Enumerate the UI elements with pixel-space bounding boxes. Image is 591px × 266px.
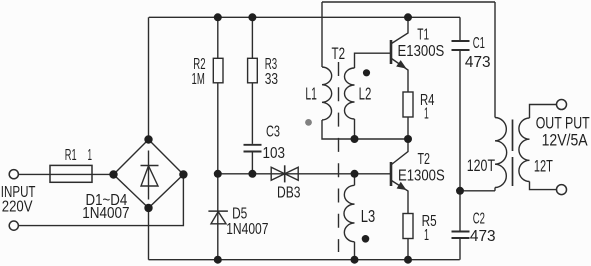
transistor T2 emitter arrow	[397, 183, 405, 190]
junction bridge left vertex	[109, 170, 117, 178]
bridge inner diode symbol	[141, 151, 159, 200]
svg-text:103: 103	[263, 145, 286, 162]
svg-text:473: 473	[465, 54, 491, 71]
svg-text:1N4007: 1N4007	[82, 205, 129, 222]
wire L2 top lead to T1 base	[355, 53, 392, 68]
svg-text:E1300S: E1300S	[398, 43, 445, 60]
junction L2 bottom	[351, 135, 359, 143]
diac DB3	[271, 165, 298, 182]
capacitor C3 plates	[244, 145, 262, 152]
svg-text:1M: 1M	[192, 71, 205, 88]
inductor L1 winding	[322, 67, 332, 120]
transistor T1 collector	[392, 17, 409, 43]
wire C2 top lead	[459, 191, 461, 231]
wire tank loop top	[322, 1, 495, 3]
junction bottom rail L3	[351, 256, 359, 264]
junction R4 bottom T2 collector	[404, 135, 412, 143]
svg-text:R1: R1	[65, 147, 77, 164]
transformer core bars	[512, 120, 514, 187]
junction bottom rail R5	[404, 256, 412, 264]
svg-text:OUT PUT: OUT PUT	[536, 114, 590, 132]
phase dot L3	[362, 235, 370, 243]
svg-text:L1: L1	[305, 83, 317, 103]
transformer 120T primary winding	[495, 118, 507, 188]
transformer T2 core (dashed)	[338, 62, 340, 252]
bridge rectifier D1~D4 diamond	[114, 140, 184, 209]
wire input line top	[18, 173, 113, 175]
svg-text:E1300S: E1300S	[398, 168, 445, 185]
junction base line R2	[214, 170, 222, 178]
svg-text:1: 1	[424, 105, 429, 122]
wire C2 bottom lead	[459, 239, 461, 260]
wire R4 bottom lead	[407, 117, 409, 139]
svg-text:120T: 120T	[467, 157, 495, 175]
svg-text:1: 1	[424, 227, 429, 244]
wire R3 C3 column upper	[251, 17, 253, 144]
wire R3 C3 column lower	[251, 152, 253, 173]
inductor L3 winding	[344, 185, 355, 242]
wire C1 to node lead	[459, 51, 461, 191]
output terminal bottom	[557, 185, 567, 195]
wire L1 bottom to T2 collector line	[322, 120, 408, 139]
svg-text:C1: C1	[473, 35, 485, 52]
transistor T1 emitter	[392, 59, 409, 93]
resistor R2 box	[213, 58, 223, 83]
wire top rail	[149, 16, 460, 18]
input terminal top	[9, 170, 18, 179]
resistor R5 box	[403, 214, 413, 239]
svg-text:33: 33	[265, 71, 278, 88]
wire 120T top lead	[494, 2, 496, 118]
svg-text:T2: T2	[418, 151, 431, 168]
wire bridge top lead	[148, 17, 150, 139]
svg-text:1: 1	[88, 147, 93, 164]
wire input line bottom	[18, 175, 183, 226]
junction bottom rail D5	[214, 256, 222, 264]
resistor R3 box	[248, 58, 258, 83]
wire L1 top lead	[321, 2, 323, 67]
wire C1 upper lead	[459, 17, 461, 40]
svg-text:T1: T1	[417, 27, 429, 44]
resistor R4 box	[403, 92, 413, 117]
transformer 12T secondary winding	[519, 118, 530, 182]
wire L3 bottom lead	[354, 242, 356, 260]
transistor T2 base bar	[390, 162, 393, 186]
svg-text:DB3: DB3	[277, 185, 301, 202]
svg-text:1N4007: 1N4007	[226, 221, 268, 238]
junction top rail R2	[214, 13, 222, 21]
wire L3 top lead	[354, 174, 356, 186]
transistor T1 base bar	[390, 40, 393, 64]
svg-text:T2: T2	[332, 44, 346, 63]
junction C1 C2 120T node	[456, 187, 464, 195]
junction top rail T1 collector	[404, 13, 412, 21]
capacitor C1 plates	[452, 41, 470, 50]
wire node to 120T bottom	[460, 190, 495, 192]
svg-text:C3: C3	[266, 124, 280, 141]
svg-text:12V/5A: 12V/5A	[542, 131, 588, 149]
watermark dot	[305, 119, 312, 126]
svg-text:12T: 12T	[534, 157, 553, 175]
junction base line C3	[248, 170, 256, 178]
wire DB3 base line	[218, 173, 391, 175]
capacitor C2 plates	[452, 232, 470, 239]
wire R2 column	[217, 17, 219, 259]
svg-text:220V: 220V	[2, 199, 33, 216]
transistor T2 collector	[392, 139, 409, 165]
inductor L2 winding	[345, 68, 355, 119]
junction base line L3 top	[351, 170, 359, 178]
svg-text:C2: C2	[473, 211, 485, 228]
wire bridge bottom lead	[148, 208, 150, 260]
wire R5 bottom lead	[407, 239, 409, 260]
output terminal top	[557, 100, 567, 110]
svg-text:473: 473	[470, 228, 496, 245]
phase dot L2	[363, 69, 370, 76]
transistor T2 emitter	[392, 181, 409, 214]
svg-text:L2: L2	[359, 83, 372, 103]
junction bridge right vertex	[179, 170, 187, 178]
wire 120T bottom lead	[494, 188, 496, 191]
wire secondary bottom lead	[530, 182, 557, 190]
wire secondary top lead	[530, 105, 557, 119]
junction top rail R3	[248, 13, 256, 21]
junction bridge bottom vertex	[144, 204, 152, 212]
svg-text:L3: L3	[361, 206, 375, 226]
wire L2 bottom lead	[354, 119, 356, 139]
wire bottom rail	[149, 259, 460, 261]
transistor T1 emitter arrow	[397, 61, 405, 68]
resistor R1 (fuse style box)	[50, 165, 92, 182]
input terminal bottom	[9, 221, 18, 230]
junction bridge top vertex	[144, 135, 152, 143]
diode D5	[208, 211, 228, 224]
